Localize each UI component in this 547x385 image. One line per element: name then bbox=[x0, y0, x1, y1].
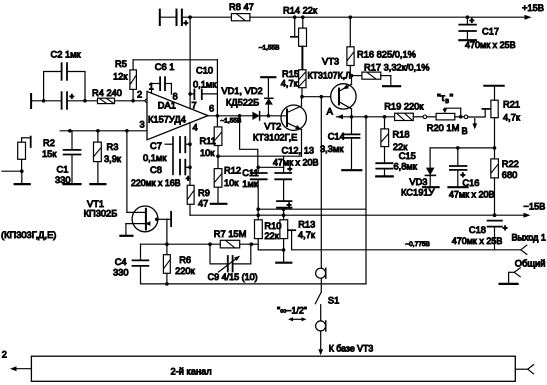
svg-text:Общий: Общий bbox=[515, 259, 546, 269]
svg-text:КТ3107К,Л: КТ3107К,Л bbox=[308, 71, 352, 81]
svg-text:C2 1мк: C2 1мк bbox=[51, 50, 82, 60]
svg-text:2-й канал: 2-й канал bbox=[171, 367, 212, 377]
svg-text:"∞−1/2": "∞−1/2" bbox=[277, 306, 307, 316]
svg-text:R15: R15 bbox=[282, 69, 299, 79]
svg-text:R20 1M: R20 1M bbox=[427, 123, 460, 133]
svg-text:К базе VT3: К базе VT3 bbox=[329, 344, 374, 354]
svg-text:S1: S1 bbox=[328, 296, 339, 306]
svg-text:Выход 1: Выход 1 bbox=[512, 233, 546, 243]
svg-text:+: + bbox=[186, 174, 191, 183]
svg-text:4,7к: 4,7к bbox=[298, 230, 316, 240]
svg-text:330: 330 bbox=[55, 175, 71, 185]
svg-text:C15: C15 bbox=[399, 151, 416, 161]
svg-text:R4 240: R4 240 bbox=[92, 88, 122, 98]
svg-text:47мк x 20В: 47мк x 20В bbox=[449, 190, 495, 200]
svg-text:C16: C16 bbox=[462, 178, 479, 188]
svg-text:6,8мк: 6,8мк bbox=[394, 161, 418, 171]
svg-text:R10: R10 bbox=[264, 221, 281, 231]
svg-text:R2: R2 bbox=[43, 138, 55, 148]
svg-text:C7: C7 bbox=[150, 141, 162, 151]
svg-text:КП302Б: КП302Б bbox=[84, 208, 118, 218]
svg-text:C1: C1 bbox=[57, 165, 69, 175]
svg-text:C6 1: C6 1 bbox=[155, 62, 175, 72]
svg-text:220мк x 16В: 220мк x 16В bbox=[131, 178, 181, 188]
svg-text:R18: R18 bbox=[393, 130, 410, 140]
svg-text:4,7к: 4,7к bbox=[281, 79, 299, 89]
svg-text:R7 15M: R7 15M bbox=[214, 229, 247, 239]
svg-text:+: + bbox=[287, 200, 292, 209]
svg-text:3: 3 bbox=[140, 120, 145, 130]
svg-text:−15В: −15В bbox=[523, 202, 545, 212]
svg-text:C8: C8 bbox=[150, 165, 162, 175]
svg-text:4: 4 bbox=[193, 123, 198, 133]
svg-text:1: 1 bbox=[149, 82, 154, 92]
svg-text:2: 2 bbox=[137, 90, 142, 100]
svg-text:47мк x 20В: 47мк x 20В bbox=[273, 157, 319, 167]
svg-text:~1,55В: ~1,55В bbox=[259, 45, 280, 52]
svg-text:22к: 22к bbox=[264, 231, 279, 241]
svg-text:R19 220к: R19 220к bbox=[384, 102, 424, 112]
svg-text:C4: C4 bbox=[115, 257, 127, 267]
svg-text:0,1мк: 0,1мк bbox=[143, 153, 167, 163]
svg-text:C10: C10 bbox=[196, 66, 213, 76]
svg-text:7: 7 bbox=[192, 101, 197, 111]
svg-text:R9: R9 bbox=[198, 188, 210, 198]
svg-text:": " bbox=[450, 92, 454, 104]
svg-text:КС191У: КС191У bbox=[401, 187, 435, 197]
svg-text:R12: R12 bbox=[224, 166, 241, 176]
svg-text:C18: C18 bbox=[469, 225, 486, 235]
svg-text:R5: R5 bbox=[115, 59, 127, 69]
svg-text:B: B bbox=[462, 126, 468, 136]
svg-text:10к: 10к bbox=[224, 178, 239, 188]
svg-text:220к: 220к bbox=[175, 266, 196, 276]
svg-text:C11: C11 bbox=[242, 168, 258, 178]
svg-text:R17 3,32к/0,1%: R17 3,32к/0,1% bbox=[364, 63, 430, 73]
svg-text:+: + bbox=[70, 92, 75, 101]
svg-text:~1,55В: ~1,55В bbox=[221, 118, 242, 125]
svg-text:15к: 15к bbox=[42, 149, 57, 159]
svg-text:470мк x 25В: 470мк x 25В bbox=[465, 40, 516, 50]
svg-text:6: 6 bbox=[209, 104, 214, 114]
svg-text:КТ3102Г,Е: КТ3102Г,Е bbox=[253, 133, 297, 143]
svg-text:R14 22к: R14 22к bbox=[283, 6, 318, 16]
svg-text:R8 47: R8 47 bbox=[229, 2, 254, 12]
svg-text:+: + bbox=[503, 224, 508, 233]
svg-text:470мк x 25В: 470мк x 25В bbox=[452, 236, 503, 246]
svg-text:R13: R13 bbox=[298, 220, 315, 230]
svg-text:+15В: +15В bbox=[522, 3, 544, 13]
svg-text:КД522Б: КД522Б bbox=[226, 98, 259, 108]
svg-text:R6: R6 bbox=[179, 255, 191, 265]
svg-text:VT2: VT2 bbox=[264, 121, 281, 131]
svg-text:3,9к: 3,9к bbox=[104, 154, 122, 164]
svg-text:2: 2 bbox=[2, 350, 7, 360]
svg-text:A: A bbox=[327, 107, 334, 117]
svg-text:VT3: VT3 bbox=[322, 57, 339, 67]
svg-text:DA1: DA1 bbox=[158, 101, 176, 111]
svg-text:VD3: VD3 bbox=[409, 177, 427, 187]
svg-text:C12, 13: C12, 13 bbox=[282, 146, 315, 156]
svg-text:10к: 10к bbox=[200, 148, 215, 158]
svg-text:R11: R11 bbox=[200, 136, 216, 146]
svg-text:12к: 12к bbox=[113, 72, 128, 82]
svg-text:0,1мк: 0,1мк bbox=[193, 80, 217, 90]
svg-text:+: + bbox=[184, 19, 189, 28]
svg-text:4,7к: 4,7к bbox=[503, 113, 521, 123]
svg-text:1мк: 1мк bbox=[242, 179, 259, 189]
svg-text:R22: R22 bbox=[502, 159, 519, 169]
svg-text:3,3мк: 3,3мк bbox=[320, 144, 344, 154]
svg-text:R21: R21 bbox=[503, 100, 520, 110]
svg-text:C14: C14 bbox=[328, 132, 345, 142]
svg-text:+: + bbox=[470, 16, 475, 25]
svg-text:VD1, VD2: VD1, VD2 bbox=[221, 86, 262, 96]
svg-text:C9 4/15 (10): C9 4/15 (10) bbox=[208, 272, 258, 282]
svg-text:~0,775В: ~0,775В bbox=[405, 241, 429, 248]
svg-text:47: 47 bbox=[198, 199, 208, 209]
svg-text:680: 680 bbox=[502, 170, 518, 180]
svg-text:R3: R3 bbox=[107, 142, 119, 152]
svg-text:R16 825/0,1%: R16 825/0,1% bbox=[357, 50, 416, 60]
svg-text:(КП303Г,Д,Е): (КП303Г,Д,Е) bbox=[1, 230, 56, 240]
svg-text:C17: C17 bbox=[482, 27, 499, 37]
svg-text:К157УД4: К157УД4 bbox=[148, 115, 186, 125]
svg-text:330: 330 bbox=[113, 267, 129, 277]
